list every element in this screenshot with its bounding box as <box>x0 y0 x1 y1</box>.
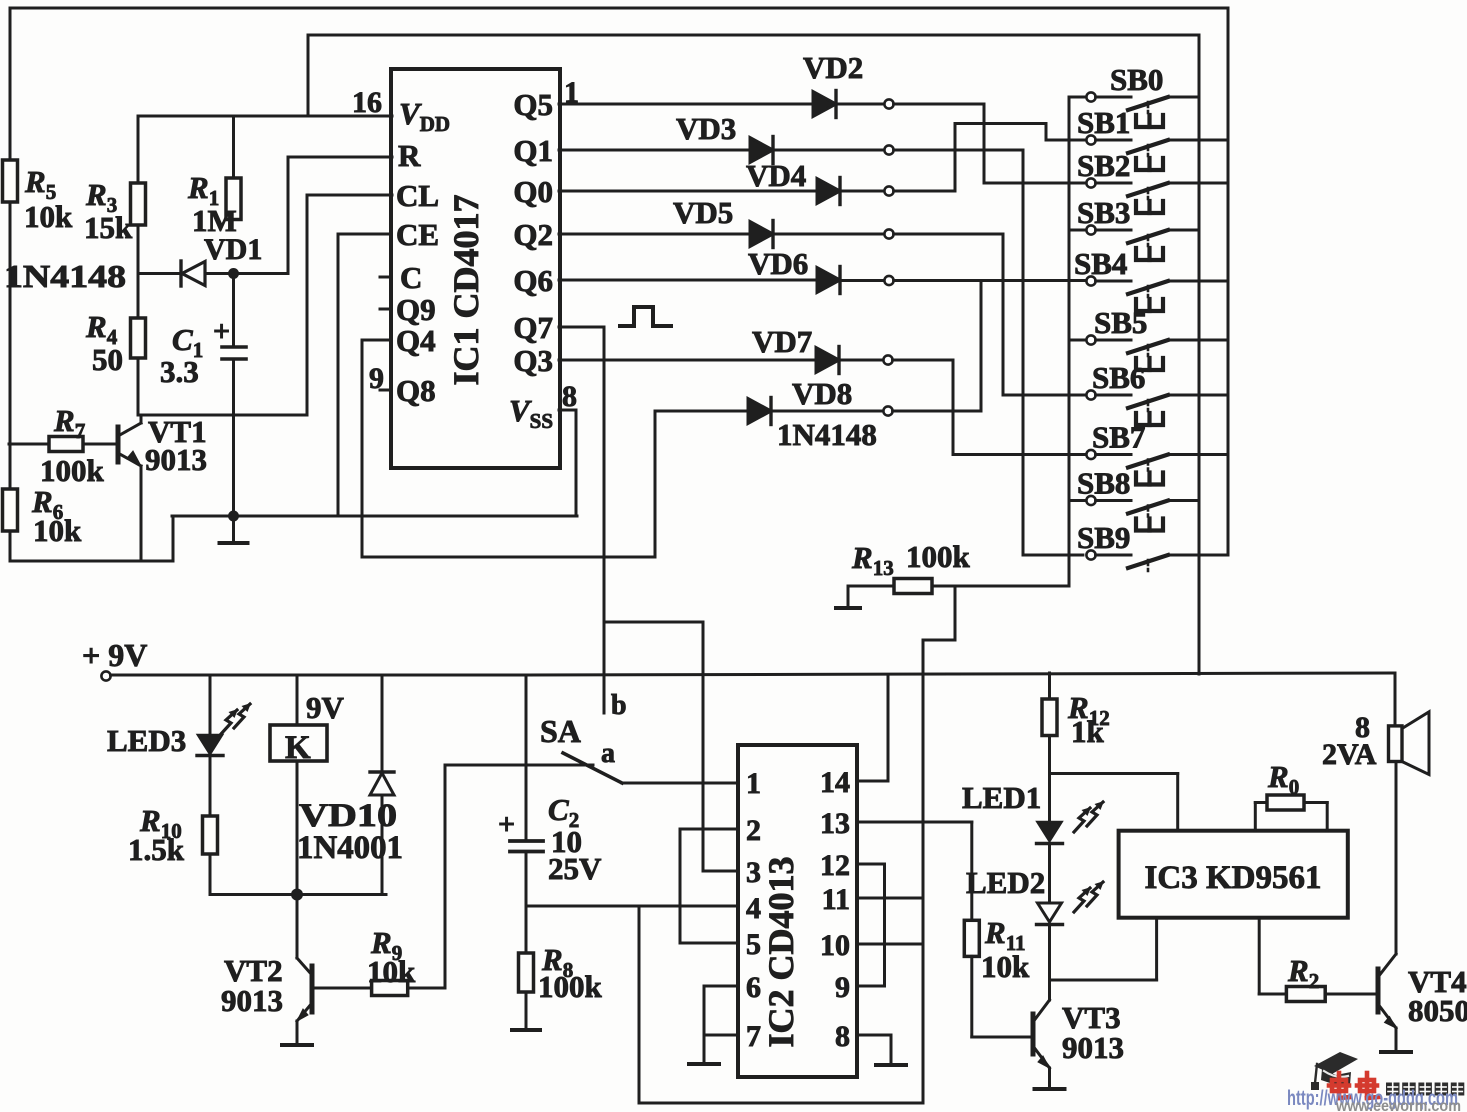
svg-text:VD3: VD3 <box>676 111 736 146</box>
resistor R9 <box>372 981 408 996</box>
wire R8 to ground <box>525 992 528 1028</box>
diode VD8 <box>748 398 771 425</box>
label 8 2VA <box>1322 711 1377 771</box>
wire Q7 pin to SA contact b and IC2 pin3 <box>559 327 738 871</box>
svg-text:1N4148: 1N4148 <box>4 258 126 294</box>
svg-text:2VA: 2VA <box>1322 738 1377 771</box>
wire outer border top and left (R5 chain) <box>10 8 1228 160</box>
resistor R1 <box>232 116 235 178</box>
transistor VT2 <box>297 895 371 1044</box>
diode VD6 <box>817 267 840 294</box>
node VD5 output terminal <box>884 229 893 238</box>
label C1 3.3 + <box>160 315 230 389</box>
wire IC2 pin10 to reset net <box>857 943 923 946</box>
node VD2 output terminal <box>884 99 893 108</box>
svg-text:9013: 9013 <box>145 442 207 477</box>
ground symbol at IC2 pin7 <box>689 1035 719 1064</box>
svg-text:10k: 10k <box>24 199 73 234</box>
svg-text:SB2: SB2 <box>1077 148 1130 183</box>
push button SB2 <box>1086 178 1228 213</box>
svg-text:www.eeworm.com: www.eeworm.com <box>1335 1098 1461 1112</box>
wire ground bus y516 <box>172 515 577 518</box>
wire IC2 pin13 to R11 <box>857 821 972 824</box>
op-amp U3: IC3 KD9561 body <box>1119 831 1348 918</box>
svg-text:+: + <box>498 808 515 841</box>
svg-text:VD1: VD1 <box>204 233 262 266</box>
svg-text:10k: 10k <box>367 954 416 989</box>
svg-text:LED2: LED2 <box>966 865 1045 900</box>
wire IC2 pin14 to +9V <box>857 675 888 781</box>
resistor R13 <box>848 585 894 588</box>
svg-text:VD5: VD5 <box>673 195 733 230</box>
svg-text:Q9: Q9 <box>396 292 436 327</box>
ground symbol at VT3 <box>1035 1086 1065 1089</box>
svg-text:16: 16 <box>352 86 382 119</box>
svg-text:SB7: SB7 <box>1092 420 1145 455</box>
svg-text:8050: 8050 <box>1408 993 1467 1028</box>
push button SB4 <box>1086 276 1228 311</box>
svg-text:9: 9 <box>835 971 850 1004</box>
wire R3 to VD1 and R4 <box>137 225 140 318</box>
svg-text:SB6: SB6 <box>1092 360 1145 395</box>
capacitor C1 <box>222 274 246 517</box>
wire R2 to VT4 base <box>1325 993 1374 996</box>
wire VD3 cathode <box>773 149 884 152</box>
transistor VT3 <box>1033 999 1050 1086</box>
push button SB1 <box>1086 135 1228 170</box>
svg-text:b: b <box>611 690 627 721</box>
push button SB0 <box>1069 92 1199 127</box>
svg-text:5: 5 <box>746 928 761 961</box>
resistor R6 <box>3 489 18 531</box>
svg-text:6: 6 <box>746 971 761 1004</box>
speaker BL <box>1389 712 1430 775</box>
label R11 10k <box>981 915 1030 984</box>
resistor R11 <box>964 920 979 956</box>
svg-text:1N4001: 1N4001 <box>297 830 403 866</box>
label R1 1M <box>187 170 237 238</box>
svg-text:9V: 9V <box>306 690 345 725</box>
svg-text:3: 3 <box>746 856 761 889</box>
svg-text:100k: 100k <box>40 453 105 488</box>
svg-text:7: 7 <box>746 1020 761 1053</box>
svg-text:VD8: VD8 <box>792 376 852 411</box>
svg-text:Q2: Q2 <box>513 217 553 252</box>
wire R13 branch to IC2 pins 11 and 10 <box>923 586 955 1103</box>
svg-text:10k: 10k <box>33 513 82 548</box>
push button SB9 <box>1086 550 1228 571</box>
wire Q2 to VD5 <box>559 233 750 236</box>
wire SA common to IC2 pin1 <box>622 782 738 785</box>
watermark site name glyph blocks <box>1386 1083 1464 1096</box>
wire IC2 pin12-pin9 bridge <box>857 864 885 986</box>
LED LED2 <box>1037 903 1063 999</box>
push button SB5 <box>1069 335 1228 370</box>
svg-text:3.3: 3.3 <box>160 354 199 389</box>
op-amp U1: IC1 CD4017 body <box>391 69 560 468</box>
pin label Q8 (9) <box>369 362 436 408</box>
wire left rail bottom to ground step <box>10 516 173 561</box>
pin label VSS (8) <box>509 380 577 433</box>
wire R4 to collector line y415 <box>138 358 307 415</box>
node VD8 output terminal <box>883 406 892 415</box>
svg-text:13: 13 <box>820 807 850 840</box>
wire Q3 to VD7 <box>559 359 816 362</box>
label R5 10k <box>24 164 73 234</box>
svg-text:R: R <box>398 138 421 173</box>
label VD10 1N4001 <box>297 798 403 866</box>
resistor R12 <box>1048 673 1051 699</box>
watermark graduation cap icon <box>1311 1052 1358 1090</box>
wire VD7 cathode <box>839 359 883 362</box>
label R4 50 <box>85 309 123 377</box>
wire VDD top rail y116 <box>138 115 392 118</box>
svg-text:VD4: VD4 <box>746 158 806 193</box>
resistor R5 <box>3 160 18 202</box>
wire VD8 to SB4 row riser <box>893 281 981 412</box>
wire VD2 cathode <box>836 103 884 106</box>
resistor R0 oscillator <box>1255 803 1267 831</box>
svg-text:4: 4 <box>746 892 761 925</box>
svg-text:9013: 9013 <box>221 983 283 1018</box>
svg-text:Q1: Q1 <box>513 133 553 168</box>
watermark chongchong red characters <box>1329 1073 1378 1098</box>
resistor R3 <box>137 116 140 183</box>
resistor R1 <box>226 178 241 220</box>
svg-text:8: 8 <box>835 1020 850 1053</box>
wire IC3 output to R2 <box>1259 918 1286 994</box>
svg-text:12: 12 <box>820 849 850 882</box>
wire VD8 anode <box>655 410 748 413</box>
wire VD1 junction to R pin <box>288 157 392 274</box>
resistor R12 <box>1042 699 1057 736</box>
relay K <box>270 675 327 895</box>
svg-text:14: 14 <box>820 766 850 799</box>
push button SB7 <box>1086 450 1228 485</box>
label R9 10k <box>367 925 416 989</box>
pulse waveform symbol <box>620 307 671 326</box>
node C1 ground junction <box>228 511 239 522</box>
LED LED1 <box>1037 822 1063 903</box>
svg-text:Q6: Q6 <box>513 263 553 298</box>
resistor R13 <box>894 579 932 594</box>
wire VD6 to SB4 row <box>894 279 1087 282</box>
capacitor C2 <box>510 675 543 906</box>
label R6 10k <box>31 484 82 548</box>
svg-text:Q5: Q5 <box>513 87 553 122</box>
svg-text:LED1: LED1 <box>962 780 1041 815</box>
diode VD1 <box>138 261 288 286</box>
ground symbol at IC2 pin8 <box>876 1063 906 1065</box>
pin label C <box>380 260 422 295</box>
svg-text:15k: 15k <box>84 210 133 245</box>
label R8 100k <box>538 942 603 1004</box>
svg-text:Q7: Q7 <box>513 310 553 345</box>
svg-text:SB4: SB4 <box>1074 246 1127 281</box>
wire VD5 cathode <box>773 233 884 236</box>
svg-text:SB5: SB5 <box>1094 305 1147 340</box>
node VD6 output terminal <box>884 276 893 285</box>
wire IC2 pin11 to reset net <box>857 897 923 900</box>
ground symbol at R13 <box>836 586 860 608</box>
push button SB3 <box>1069 225 1199 260</box>
wire CL pin riser <box>307 195 392 415</box>
wire VD4 to SB1 row <box>894 124 1087 192</box>
diode VD5 <box>750 221 773 248</box>
svg-text:SA: SA <box>540 713 581 749</box>
label VT2 9013 <box>221 953 283 1018</box>
ground symbol at VT4 <box>1381 1050 1411 1052</box>
watermark url blue <box>1287 1087 1458 1110</box>
svg-text:CE: CE <box>396 217 439 252</box>
svg-text:1: 1 <box>746 767 761 800</box>
resistor R8 <box>519 953 534 992</box>
push button SB8 <box>1069 496 1199 531</box>
wire outer border right rail (to SB9) <box>1227 8 1230 555</box>
wire VSS pin to ground bus <box>559 410 576 516</box>
diode VD7 <box>816 347 839 374</box>
svg-text:2: 2 <box>746 814 761 847</box>
diode VD3 <box>750 137 773 164</box>
svg-text:LED3: LED3 <box>107 723 186 758</box>
resistor R8 <box>525 906 528 953</box>
svg-text:a: a <box>601 738 615 769</box>
wire R12 to LED1 and IC3 power <box>1050 736 1178 831</box>
resistor R0 <box>1267 795 1304 810</box>
ground symbol at VT2 <box>282 1043 312 1045</box>
svg-text:IC2 CD4013: IC2 CD4013 <box>761 856 801 1047</box>
svg-text:IC3 KD9561: IC3 KD9561 <box>1145 860 1322 896</box>
wire VD4 cathode <box>840 190 884 193</box>
wire C2 to IC2 pin4 <box>526 905 738 908</box>
svg-text:VD10: VD10 <box>299 798 397 834</box>
svg-text:SB0: SB0 <box>1110 62 1163 97</box>
wire Q1 to VD3 <box>559 149 750 152</box>
svg-text:SB1: SB1 <box>1077 105 1130 140</box>
ground symbol at R8 <box>512 1028 540 1030</box>
wire IC2 pin8 to ground <box>857 1035 891 1063</box>
label C2 + 10 25V <box>498 792 602 886</box>
wire Q4 pin loop to VD8 <box>362 340 655 557</box>
svg-text:IC1 CD4017: IC1 CD4017 <box>446 194 486 385</box>
node VD7 output terminal <box>883 355 892 364</box>
svg-text:100k: 100k <box>538 969 603 1004</box>
pin label Q9 <box>380 292 436 327</box>
node VD4 output terminal <box>884 186 893 195</box>
diode VD2 <box>813 91 836 118</box>
LED LED3 <box>197 675 223 816</box>
resistor R4 <box>131 318 146 358</box>
wire VD3 to SB9 row <box>894 150 1083 555</box>
wire inner top line VDD to SB right rail <box>308 35 1199 674</box>
svg-text:8: 8 <box>562 380 577 413</box>
wire R5 to R7 to R6 left rail <box>9 202 12 489</box>
transistor VT4 <box>1378 762 1396 1051</box>
svg-text:1.5k: 1.5k <box>128 832 185 867</box>
label VT3 9013 <box>1062 1000 1124 1065</box>
wire +9V rail <box>111 673 1395 726</box>
wire CE pin to ground bus <box>338 234 391 516</box>
wire R0 right to IC3 <box>1304 803 1327 831</box>
svg-text:VD6: VD6 <box>748 246 808 281</box>
resistor R2 <box>1286 987 1325 1002</box>
push button SB6 <box>1086 390 1228 425</box>
label R3 15k <box>84 177 133 245</box>
resistor R10 <box>203 816 218 854</box>
LED3 emission arrows <box>221 703 251 734</box>
resistor R11 <box>970 822 973 920</box>
svg-text:Q4: Q4 <box>396 323 436 358</box>
label VT4 8050 <box>1408 964 1467 1028</box>
svg-text:9: 9 <box>369 362 384 395</box>
node VD1-R1-C1 junction <box>228 268 239 279</box>
wire R13 to SB feeder rail <box>932 585 1069 588</box>
wire R9 to SA contact a <box>408 765 593 988</box>
svg-text:11: 11 <box>822 883 850 916</box>
label VT1 9013 <box>145 414 207 477</box>
svg-text:SB3: SB3 <box>1077 195 1130 230</box>
svg-text:Q8: Q8 <box>396 373 436 408</box>
node VD3 output terminal <box>884 145 893 154</box>
wire LED2 cathode to IC3 bottom pin <box>1050 918 1157 980</box>
svg-text:SB8: SB8 <box>1077 466 1130 501</box>
pin label VDD (16) <box>352 86 450 136</box>
op-amp U2: IC2 CD4013 body <box>738 745 857 1077</box>
svg-text:1k: 1k <box>1071 714 1105 749</box>
svg-text:9013: 9013 <box>1062 1030 1124 1065</box>
svg-text:SB9: SB9 <box>1077 520 1130 555</box>
resistor R7 <box>49 437 83 452</box>
ground symbol below C1 <box>220 516 248 543</box>
pin label Q5 (1) <box>513 76 579 122</box>
svg-text:25V: 25V <box>548 851 602 886</box>
svg-text:Q0: Q0 <box>513 174 553 209</box>
diode VD4 <box>817 178 840 205</box>
wire R11 to VT3 base <box>972 956 1031 1037</box>
wire VD6 cathode <box>840 279 884 282</box>
label R7 100k <box>40 403 105 488</box>
svg-text:10: 10 <box>820 929 850 962</box>
label R13 100k <box>851 539 971 580</box>
wire R10 to VT2 junction row <box>210 854 386 895</box>
watermark url gray <box>1335 1098 1461 1112</box>
svg-text:10k: 10k <box>981 949 1030 984</box>
svg-text:CL: CL <box>396 178 439 213</box>
node relay drive junction <box>291 889 303 901</box>
transistor VT1 <box>9 443 49 446</box>
wire VD2 to SB2 row <box>894 104 1087 183</box>
wire VD5 to SB6 row <box>894 234 1087 395</box>
svg-text:50: 50 <box>92 342 123 377</box>
svg-text:C: C <box>400 260 422 295</box>
node +9V supply terminal <box>101 671 110 680</box>
svg-text:VD7: VD7 <box>752 324 812 359</box>
diode VD10 flyback <box>370 675 394 895</box>
svg-text:VD2: VD2 <box>803 50 863 85</box>
svg-text:100k: 100k <box>906 539 971 574</box>
transistor VT1 symbol <box>83 415 141 561</box>
resistor R3 <box>131 183 146 225</box>
wire IC2 pin2-pin5 bridge <box>680 829 738 943</box>
wire pin4 drop to reset bus <box>639 906 923 1103</box>
wire Q0 to VD4 <box>559 190 817 193</box>
svg-text:Q3: Q3 <box>513 343 553 378</box>
label R12 1k <box>1067 690 1110 749</box>
wire IC2 pin6-pin7 to ground <box>704 986 738 1035</box>
wire Q5 to VD2 <box>559 103 813 106</box>
switch SA <box>563 753 622 783</box>
svg-text:+: + <box>213 315 230 348</box>
svg-text:+ 9V: + 9V <box>82 637 147 673</box>
wire VD8 cathode <box>771 410 883 413</box>
wire SB left feeder rail to R13 <box>1068 97 1071 586</box>
LED1 emission arrows <box>1074 801 1104 832</box>
svg-text:1N4148: 1N4148 <box>777 417 877 452</box>
wire VD7 to SB7 row <box>893 360 1087 455</box>
wire Q6 to VD6 <box>559 279 817 282</box>
label R10 1.5k <box>128 803 185 867</box>
LED2 emission arrows <box>1074 881 1104 912</box>
